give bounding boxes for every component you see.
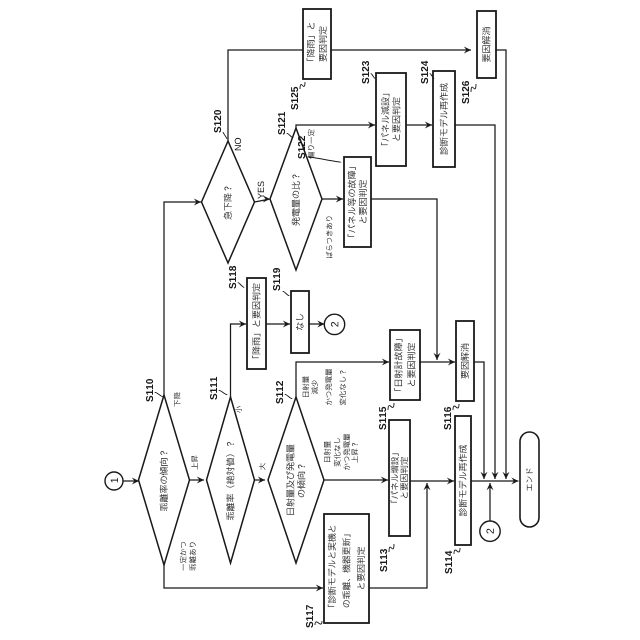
wire S120 YES to S121 <box>255 199 271 202</box>
terminal end <box>520 432 539 527</box>
process S118 rainfall <box>247 278 266 369</box>
label S120 <box>214 110 221 133</box>
label S110 <box>146 379 153 402</box>
wire S120 NO to S125 <box>228 50 303 141</box>
label S115 <box>379 407 386 430</box>
label S112 <box>276 381 283 404</box>
wire S122 out <box>371 199 437 360</box>
wire start to S110 <box>123 480 139 482</box>
start connector circle 1 <box>105 472 123 490</box>
process S124 model re-create 2 <box>433 71 455 167</box>
label S116 <box>444 407 451 430</box>
label S123 <box>362 61 369 84</box>
decision S120 sudden drop <box>202 141 255 263</box>
wire S111 to S118 small <box>231 324 247 397</box>
wire S124 out <box>455 125 495 479</box>
label S125 <box>291 87 298 110</box>
wire S119 to connector 2 <box>309 323 325 325</box>
process S119 none <box>291 291 309 353</box>
label S124 <box>421 61 428 84</box>
branch label small <box>235 406 242 413</box>
wire S117 out to main <box>369 483 427 588</box>
wire S121 to S123 katayori ittei <box>296 125 375 128</box>
process S126 youin kaisho 2 <box>477 11 496 78</box>
wire S112 to S113 with condition label <box>324 479 388 481</box>
process S123 panel gensetsu <box>376 73 406 166</box>
decision S110 kairi-ritsu trend <box>139 395 190 565</box>
decision S111 kairi-ritsu abs <box>207 397 255 563</box>
wire S113 to S114 <box>410 480 454 482</box>
wire S110 to S120 descend <box>164 202 201 395</box>
process S115 pyranometer failure <box>390 330 420 400</box>
wire S118 to S119 <box>266 323 290 325</box>
wire S116 out <box>474 362 484 479</box>
process S113 panel zousetsu <box>389 420 410 536</box>
process S122 panel failure <box>344 157 371 247</box>
wire S125 to S126 <box>331 49 471 51</box>
decision S112 insolation and power trend <box>268 397 324 563</box>
label S111 <box>210 377 217 400</box>
decision S121 power ratio <box>270 128 322 270</box>
connector circle 2a <box>324 314 344 334</box>
process S117 model deviation <box>324 514 369 623</box>
label S119 <box>273 268 280 291</box>
label S117 <box>306 605 313 628</box>
wire S123 to S124 <box>406 124 432 126</box>
wire S121 to S122 baratsuki <box>322 198 343 200</box>
label S126 <box>462 81 469 104</box>
wire connector2b to main <box>489 483 491 521</box>
wire S115 to S116 <box>420 361 455 363</box>
process S125 rainfall 2 <box>303 9 331 79</box>
label YES <box>258 181 264 198</box>
wire S110 to S117 constant-divergence <box>164 565 323 588</box>
process S116 youin kaisho <box>456 321 474 401</box>
wire S112 to S115 with condition label <box>296 362 389 397</box>
label S121 <box>278 112 285 135</box>
wire S126 out <box>496 50 506 479</box>
label S118 <box>229 266 236 289</box>
label S114 <box>445 551 452 574</box>
process S114 model re-create <box>455 416 471 545</box>
branch label descend <box>174 392 181 406</box>
wire S110 to S111 rise <box>190 479 205 481</box>
label S122 <box>298 136 305 159</box>
label S113 <box>380 549 387 572</box>
label NO <box>235 138 241 150</box>
wire S114 to end <box>471 480 519 482</box>
connector circle 2b <box>480 521 500 541</box>
wire S111 to S112 large <box>255 479 266 481</box>
